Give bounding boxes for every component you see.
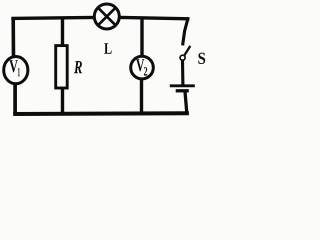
label R	[74, 61, 82, 73]
wire V2 branch lower stub	[140, 78, 143, 114]
wire top right segment	[118, 17, 189, 18]
lamp L	[94, 4, 119, 29]
voltmeter V1	[4, 57, 28, 84]
wire left branch upper	[11, 17, 15, 58]
wire right branch upper	[183, 18, 189, 46]
battery short plate	[176, 89, 189, 92]
resistor R	[56, 46, 67, 88]
wire switch to battery	[181, 60, 184, 85]
wire R branch lower stub	[61, 87, 64, 114]
label L	[104, 43, 111, 54]
voltmeter V2	[131, 56, 154, 79]
switch S	[180, 46, 190, 60]
wire R branch upper stub	[61, 17, 64, 46]
label S	[198, 53, 205, 64]
wire bottom	[13, 111, 189, 116]
wire top left segment	[11, 17, 96, 18]
wire battery to bottom	[185, 92, 187, 114]
wire left branch lower	[13, 83, 17, 114]
wire V2 branch upper stub	[140, 17, 143, 57]
battery long plate	[170, 84, 195, 87]
